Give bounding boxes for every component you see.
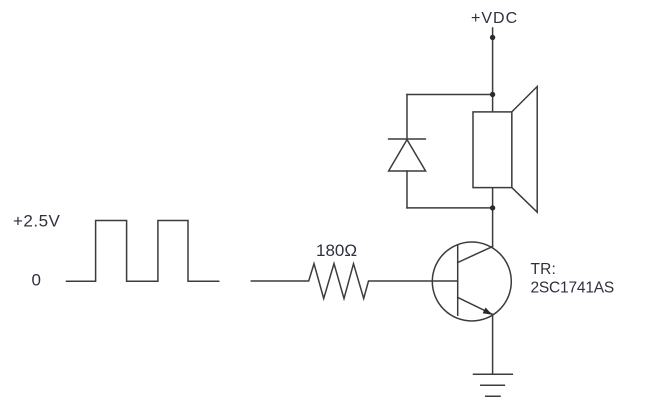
svg-text:+2.5V: +2.5V bbox=[13, 212, 61, 231]
svg-text:0: 0 bbox=[32, 271, 41, 290]
svg-text:+VDC: +VDC bbox=[471, 10, 518, 27]
svg-text:2SC1741AS: 2SC1741AS bbox=[531, 280, 615, 297]
svg-text:TR:: TR: bbox=[531, 261, 557, 278]
svg-text:180Ω: 180Ω bbox=[316, 241, 357, 260]
